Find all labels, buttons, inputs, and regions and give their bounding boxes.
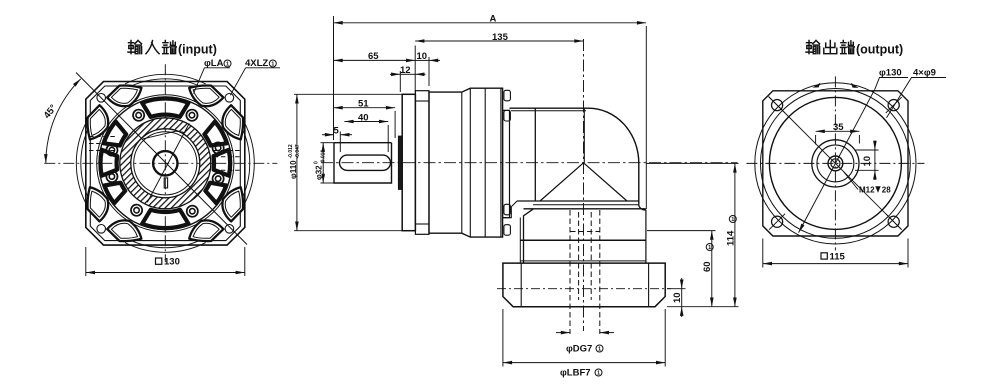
svg-text:φLBF7: φLBF7 xyxy=(560,368,591,379)
svg-text:40: 40 xyxy=(358,112,369,123)
45deg diagonal through corner holes xyxy=(76,73,247,245)
dim 114 xyxy=(734,163,736,306)
diagonal through corner holes xyxy=(769,96,902,229)
dim DG7 xyxy=(556,332,570,334)
corner hole TL xyxy=(769,97,785,113)
band bottom line xyxy=(524,208,646,210)
dim phi130 diagonal xyxy=(799,89,875,232)
adapter ring tab bottom xyxy=(415,223,429,225)
output flange side profile xyxy=(503,263,665,307)
leader LZ xyxy=(230,68,280,95)
svg-text:4XLZ: 4XLZ xyxy=(245,58,268,69)
hanzi shu xyxy=(128,41,142,54)
dim 135 xyxy=(415,40,583,42)
circle r31.6 xyxy=(134,132,197,195)
inner contour of square xyxy=(90,86,240,241)
elbow left edge xyxy=(534,108,536,201)
centerline horizontal xyxy=(44,162,277,164)
centerline vertical xyxy=(164,64,166,262)
svg-text:10: 10 xyxy=(417,51,428,62)
corner hole TR xyxy=(225,94,234,103)
adapter ring column xyxy=(415,91,429,235)
main body outline xyxy=(429,88,503,237)
hatched annulus r34.5-45.5 xyxy=(120,118,211,209)
pilot circle r75 xyxy=(761,88,911,238)
slot ring outer circle r68.6 xyxy=(97,95,234,232)
body internal lines xyxy=(461,92,463,233)
keyway mark xyxy=(164,178,167,188)
dim phi32 xyxy=(322,143,324,183)
centerline horizontal output xyxy=(746,162,924,164)
svg-text:A: A xyxy=(490,13,497,24)
section diagonal 62deg xyxy=(147,123,189,202)
hidden dashes left xyxy=(89,137,242,171)
band mid line xyxy=(533,204,639,206)
dim 5 xyxy=(322,134,334,136)
outer boss arc r89 xyxy=(76,74,254,252)
neck inner line xyxy=(520,239,646,241)
svg-text:M12: M12 xyxy=(859,186,875,195)
fin slots x8 (outer+inner rim) xyxy=(87,85,243,241)
dim A xyxy=(334,22,647,24)
svg-text:114: 114 xyxy=(725,230,736,246)
cap tab 2 xyxy=(504,111,511,122)
neck left edges xyxy=(524,209,534,263)
dim 10 bottom xyxy=(681,289,683,307)
elbow outline arc xyxy=(510,108,639,204)
dim 10 top xyxy=(415,59,429,61)
title output: CJK fake glyphs xyxy=(806,41,854,54)
svg-text:135: 135 xyxy=(492,32,509,43)
hanzi shu2 xyxy=(806,41,820,54)
node input-view centered xyxy=(44,64,277,262)
ring slots x8 xyxy=(100,99,230,229)
dim 40 xyxy=(344,121,388,123)
dim square115 xyxy=(763,263,908,265)
dim 35 xyxy=(816,130,860,132)
corner hole BL xyxy=(97,225,106,234)
cap tab 3 xyxy=(504,204,511,215)
outer boss arc r84.5 xyxy=(81,79,250,248)
elbow corner fillet xyxy=(639,205,646,264)
dim 130 line xyxy=(86,272,245,274)
square130 label xyxy=(156,257,180,268)
main circle r66 xyxy=(769,97,901,229)
elbow bore vertical edge xyxy=(583,108,585,163)
svg-text:10: 10 xyxy=(862,156,873,167)
dim 51 xyxy=(334,107,396,109)
hanzi chu xyxy=(824,41,837,54)
chamfer polyline near bore xyxy=(143,131,184,139)
svg-text:(input): (input) xyxy=(178,43,217,57)
dim 12 xyxy=(400,73,415,75)
svg-text:-0.016: -0.016 xyxy=(320,150,326,164)
svg-text:35: 35 xyxy=(833,122,844,133)
corner hole TL xyxy=(97,94,106,103)
dim 130 extension lines xyxy=(85,247,87,276)
svg-text:0: 0 xyxy=(314,161,320,164)
leader 4xphi9 xyxy=(887,78,947,118)
input flange plate xyxy=(402,94,415,230)
dim 60 xyxy=(711,231,713,307)
hub center hole xyxy=(828,156,843,171)
45deg dimension arc xyxy=(46,79,81,164)
title input: CJK fake glyphs xyxy=(128,41,176,54)
hanzi duan2 xyxy=(841,41,855,54)
svg-text:-0.047: -0.047 xyxy=(295,144,301,158)
vertical centerline of output axis xyxy=(583,39,585,331)
cap tab 1 xyxy=(504,90,511,101)
hub circle mid xyxy=(817,145,854,182)
hidden bore lines xyxy=(570,210,600,334)
svg-text:φ130: φ130 xyxy=(879,68,902,79)
band top line xyxy=(517,200,639,202)
dim phi110 xyxy=(296,94,298,230)
svg-text:φLA: φLA xyxy=(204,58,224,69)
neck lower line xyxy=(520,260,646,262)
svg-text:115: 115 xyxy=(830,251,846,262)
flange inner verticals xyxy=(520,263,522,307)
svg-text:4×φ9: 4×φ9 xyxy=(913,68,936,79)
keyway slot xyxy=(340,155,391,170)
center bore xyxy=(153,151,177,175)
flange hole centerline xyxy=(497,288,671,290)
cone triangle xyxy=(540,163,627,201)
band left step xyxy=(503,201,517,218)
svg-text:60: 60 xyxy=(702,261,713,272)
bolt circle phi130 xyxy=(755,83,916,244)
shaft hub dark band xyxy=(398,136,402,189)
end cap plate xyxy=(503,110,510,217)
dim 10 output xyxy=(874,150,876,170)
output square xyxy=(763,91,908,236)
leader LA xyxy=(194,68,231,94)
svg-text:28: 28 xyxy=(882,186,891,195)
svg-text:φ32: φ32 xyxy=(315,165,324,180)
svg-text:130: 130 xyxy=(164,257,180,268)
svg-text:12: 12 xyxy=(400,65,411,76)
bolt holes x8 xyxy=(105,108,225,219)
M12 leader xyxy=(844,172,859,190)
svg-text:-0.012: -0.012 xyxy=(288,144,294,158)
svg-text:(output): (output) xyxy=(856,43,903,57)
centerline vertical output xyxy=(834,76,836,250)
svg-text:51: 51 xyxy=(358,99,369,110)
dim LBF7 xyxy=(503,362,665,364)
cap tab 4 xyxy=(504,225,511,236)
svg-text:65: 65 xyxy=(368,51,379,62)
hanzi ru xyxy=(146,41,159,54)
corner hole BR xyxy=(225,225,234,234)
elbow inner top line xyxy=(511,110,586,112)
phi130 arc arrowheads xyxy=(813,83,821,88)
hanzi duan xyxy=(163,41,177,54)
svg-text:φ110: φ110 xyxy=(289,160,298,179)
adapter ring tab top xyxy=(415,100,429,102)
slot ring outer circle r66.3 xyxy=(99,97,232,230)
main axis centerline xyxy=(321,162,738,164)
svg-text:5: 5 xyxy=(334,126,340,137)
input shaft xyxy=(334,143,392,183)
svg-text:φDG7: φDG7 xyxy=(566,344,592,355)
svg-text:10: 10 xyxy=(672,292,683,303)
square flange outline chamfered xyxy=(86,82,245,246)
hatch band boundary circles xyxy=(120,118,211,209)
dim 65 xyxy=(334,59,416,61)
hub circle outer xyxy=(812,140,859,187)
